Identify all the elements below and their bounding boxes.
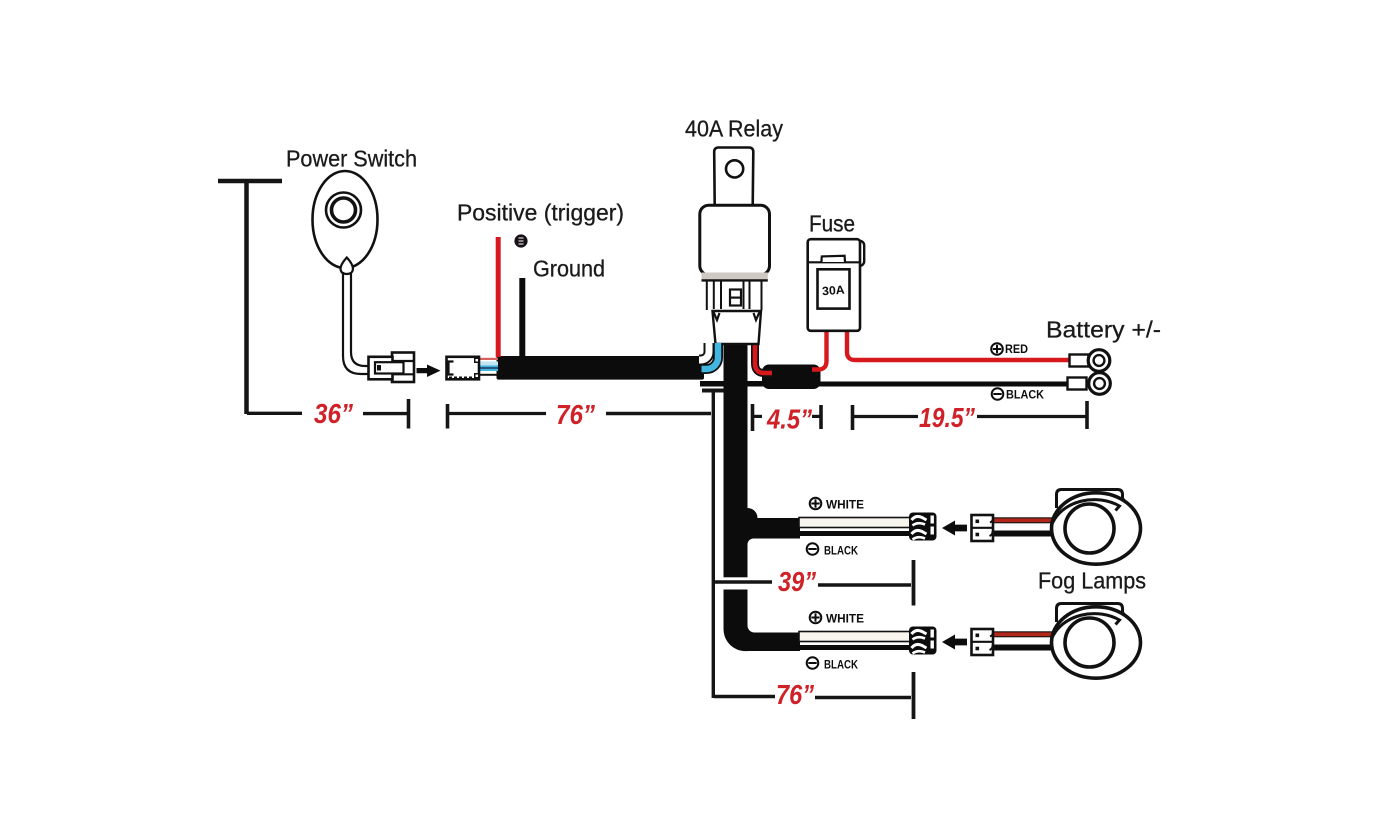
svg-text:30A: 30A	[822, 283, 846, 299]
svg-text:RED: RED	[1005, 342, 1028, 356]
svg-text:WHITE: WHITE	[826, 498, 864, 512]
svg-text:Positive (trigger): Positive (trigger)	[457, 200, 624, 226]
svg-text:BLACK: BLACK	[824, 658, 858, 672]
svg-text:39”: 39”	[778, 566, 816, 597]
svg-text:76”: 76”	[556, 399, 595, 430]
svg-text:Power Switch: Power Switch	[286, 146, 417, 172]
svg-text:Fog Lamps: Fog Lamps	[1038, 568, 1146, 594]
svg-text:4.5”: 4.5”	[766, 404, 812, 435]
svg-text:Battery +/-: Battery +/-	[1046, 317, 1161, 343]
svg-text:BLACK: BLACK	[1006, 388, 1044, 402]
svg-text:Fuse: Fuse	[809, 211, 855, 237]
svg-text:BLACK: BLACK	[824, 544, 858, 558]
svg-text:Ground: Ground	[533, 256, 605, 282]
svg-text:40A Relay: 40A Relay	[685, 116, 783, 142]
svg-text:36”: 36”	[314, 398, 353, 429]
svg-text:19.5”: 19.5”	[919, 402, 975, 433]
svg-text:76”: 76”	[776, 679, 814, 710]
svg-text:WHITE: WHITE	[826, 612, 864, 626]
